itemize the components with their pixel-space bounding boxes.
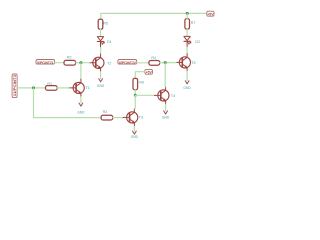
node A junction xyxy=(32,86,35,89)
svg-text:GND: GND xyxy=(97,84,105,88)
svg-text:5/PCINT21: 5/PCINT21 xyxy=(37,61,54,65)
wire T3 emitter to ground xyxy=(133,126,135,130)
resistor R3 xyxy=(101,115,113,120)
LED D2 xyxy=(184,36,191,47)
svg-text:R4: R4 xyxy=(151,56,156,60)
svg-text:D1: D1 xyxy=(107,40,112,44)
ground GND at T4 xyxy=(162,111,170,120)
wire R1 to T1 base xyxy=(57,87,70,89)
svg-text:T2: T2 xyxy=(107,62,111,66)
resistor R7 xyxy=(185,19,190,29)
net label +5V at R6 xyxy=(145,69,153,74)
wire node C to T4 base xyxy=(135,94,154,96)
node B2 junction xyxy=(79,61,82,64)
resistor R2 xyxy=(64,60,76,65)
node junction on +5V rail xyxy=(186,12,189,15)
wire R6 to node C xyxy=(134,90,136,96)
svg-text:+5V: +5V xyxy=(207,12,214,16)
wire R2 to node B2 xyxy=(76,62,90,64)
ground GND at T2 xyxy=(97,79,105,88)
wire node C down to T3 collector xyxy=(133,95,136,108)
svg-text:T1: T1 xyxy=(85,86,89,90)
wire R5 to D1 xyxy=(100,29,102,36)
svg-text:GND: GND xyxy=(77,110,85,114)
transistor T3 xyxy=(123,109,138,127)
wire R7 to D2 xyxy=(186,29,188,36)
wire node B2 down to T1 collector xyxy=(80,63,82,80)
svg-text:R1: R1 xyxy=(47,82,52,86)
net label PD6 input right-mid xyxy=(118,60,137,65)
supply label +5V xyxy=(207,11,214,16)
wire rail to R7 xyxy=(186,13,188,18)
wire top +5V rail xyxy=(101,13,207,19)
wire T4 emitter to ground xyxy=(165,104,167,110)
svg-text:T4: T4 xyxy=(171,94,175,98)
net label PD5 input left-mid xyxy=(36,60,55,65)
svg-text:R2: R2 xyxy=(67,56,72,60)
wire R4 to node D xyxy=(160,62,176,64)
svg-text:D2: D2 xyxy=(195,40,200,44)
ground GND at T3 xyxy=(131,131,139,139)
ground GND at T1 xyxy=(77,103,85,114)
wire label to R4 xyxy=(137,62,149,64)
transistor T5 xyxy=(176,54,191,72)
svg-text:+5V: +5V xyxy=(146,70,153,74)
resistor R1 xyxy=(46,86,58,91)
net label input vertical left xyxy=(12,74,17,98)
wire T5 emitter to ground xyxy=(186,71,188,80)
wire label to R1 xyxy=(17,87,45,89)
wire D1 to T2 collector xyxy=(100,48,102,55)
svg-text:11/PCINT3: 11/PCINT3 xyxy=(13,75,17,96)
transistor T4 xyxy=(154,87,169,105)
svg-text:GND: GND xyxy=(131,135,139,139)
wire T2 emitter to ground xyxy=(100,72,102,79)
svg-text:GND: GND xyxy=(162,115,170,119)
svg-text:R6: R6 xyxy=(139,81,144,85)
wire node D down to T4 collector xyxy=(164,63,166,87)
wire R3 to T3 base xyxy=(113,117,124,119)
wire label to R2 xyxy=(55,62,64,64)
resistor R6 xyxy=(133,78,138,89)
svg-text:6/PCINT22: 6/PCINT22 xyxy=(119,61,136,65)
wire +5V label to R6 xyxy=(135,72,145,79)
svg-text:T3: T3 xyxy=(139,116,143,120)
resistor R5 xyxy=(98,19,103,29)
svg-text:R7: R7 xyxy=(191,21,196,25)
wire D2 to T5 collector xyxy=(186,47,188,54)
node C junction xyxy=(134,94,137,97)
transistor T1 xyxy=(70,79,85,97)
svg-text:R3: R3 xyxy=(103,110,108,114)
svg-text:R5: R5 xyxy=(103,22,108,26)
wire T1 emitter to ground xyxy=(80,97,82,103)
wire node A down and right to R3 xyxy=(34,88,102,118)
svg-text:T5: T5 xyxy=(191,61,195,65)
LED D1 xyxy=(97,37,104,48)
transistor T2 xyxy=(89,54,104,72)
ground GND at T5 xyxy=(183,81,191,90)
resistor R4 xyxy=(149,61,160,66)
node D junction xyxy=(164,61,167,64)
svg-text:GND: GND xyxy=(183,86,191,90)
